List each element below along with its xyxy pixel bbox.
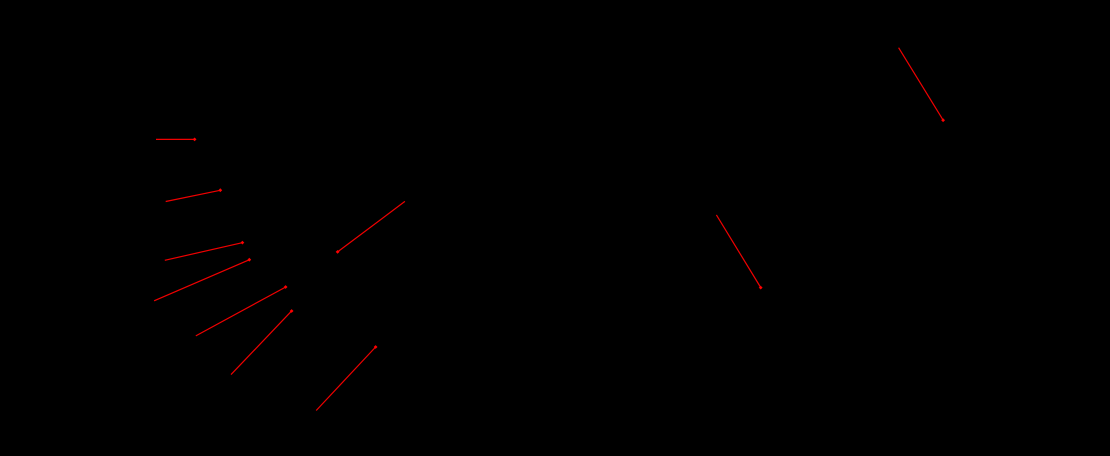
annotation arrow 10 (callout from top, tip dot at bottom) xyxy=(716,215,762,290)
annotation arrow 4 (callout, tip dot at upper right) xyxy=(154,258,251,301)
annotation arrow 6 (callout, tip dot at upper right) xyxy=(231,309,294,375)
annotation arrow 5 (callout, tip dot at upper right) xyxy=(196,285,288,336)
annotation arrow 9 (callout from top, tip dot at bottom) xyxy=(899,48,945,122)
annotation arrow 2 (callout, tip dot at upper right) xyxy=(166,188,223,201)
annotation arrow 3 (callout, tip dot at upper right) xyxy=(165,241,245,261)
annotation arrow 8 (callout from upper right, tip dot at lower left) xyxy=(336,201,405,253)
annotation arrow 1 (horizontal callout, tip dot at right) xyxy=(156,138,197,142)
annotation arrow 7 (callout, tip dot at upper right) xyxy=(316,345,377,410)
